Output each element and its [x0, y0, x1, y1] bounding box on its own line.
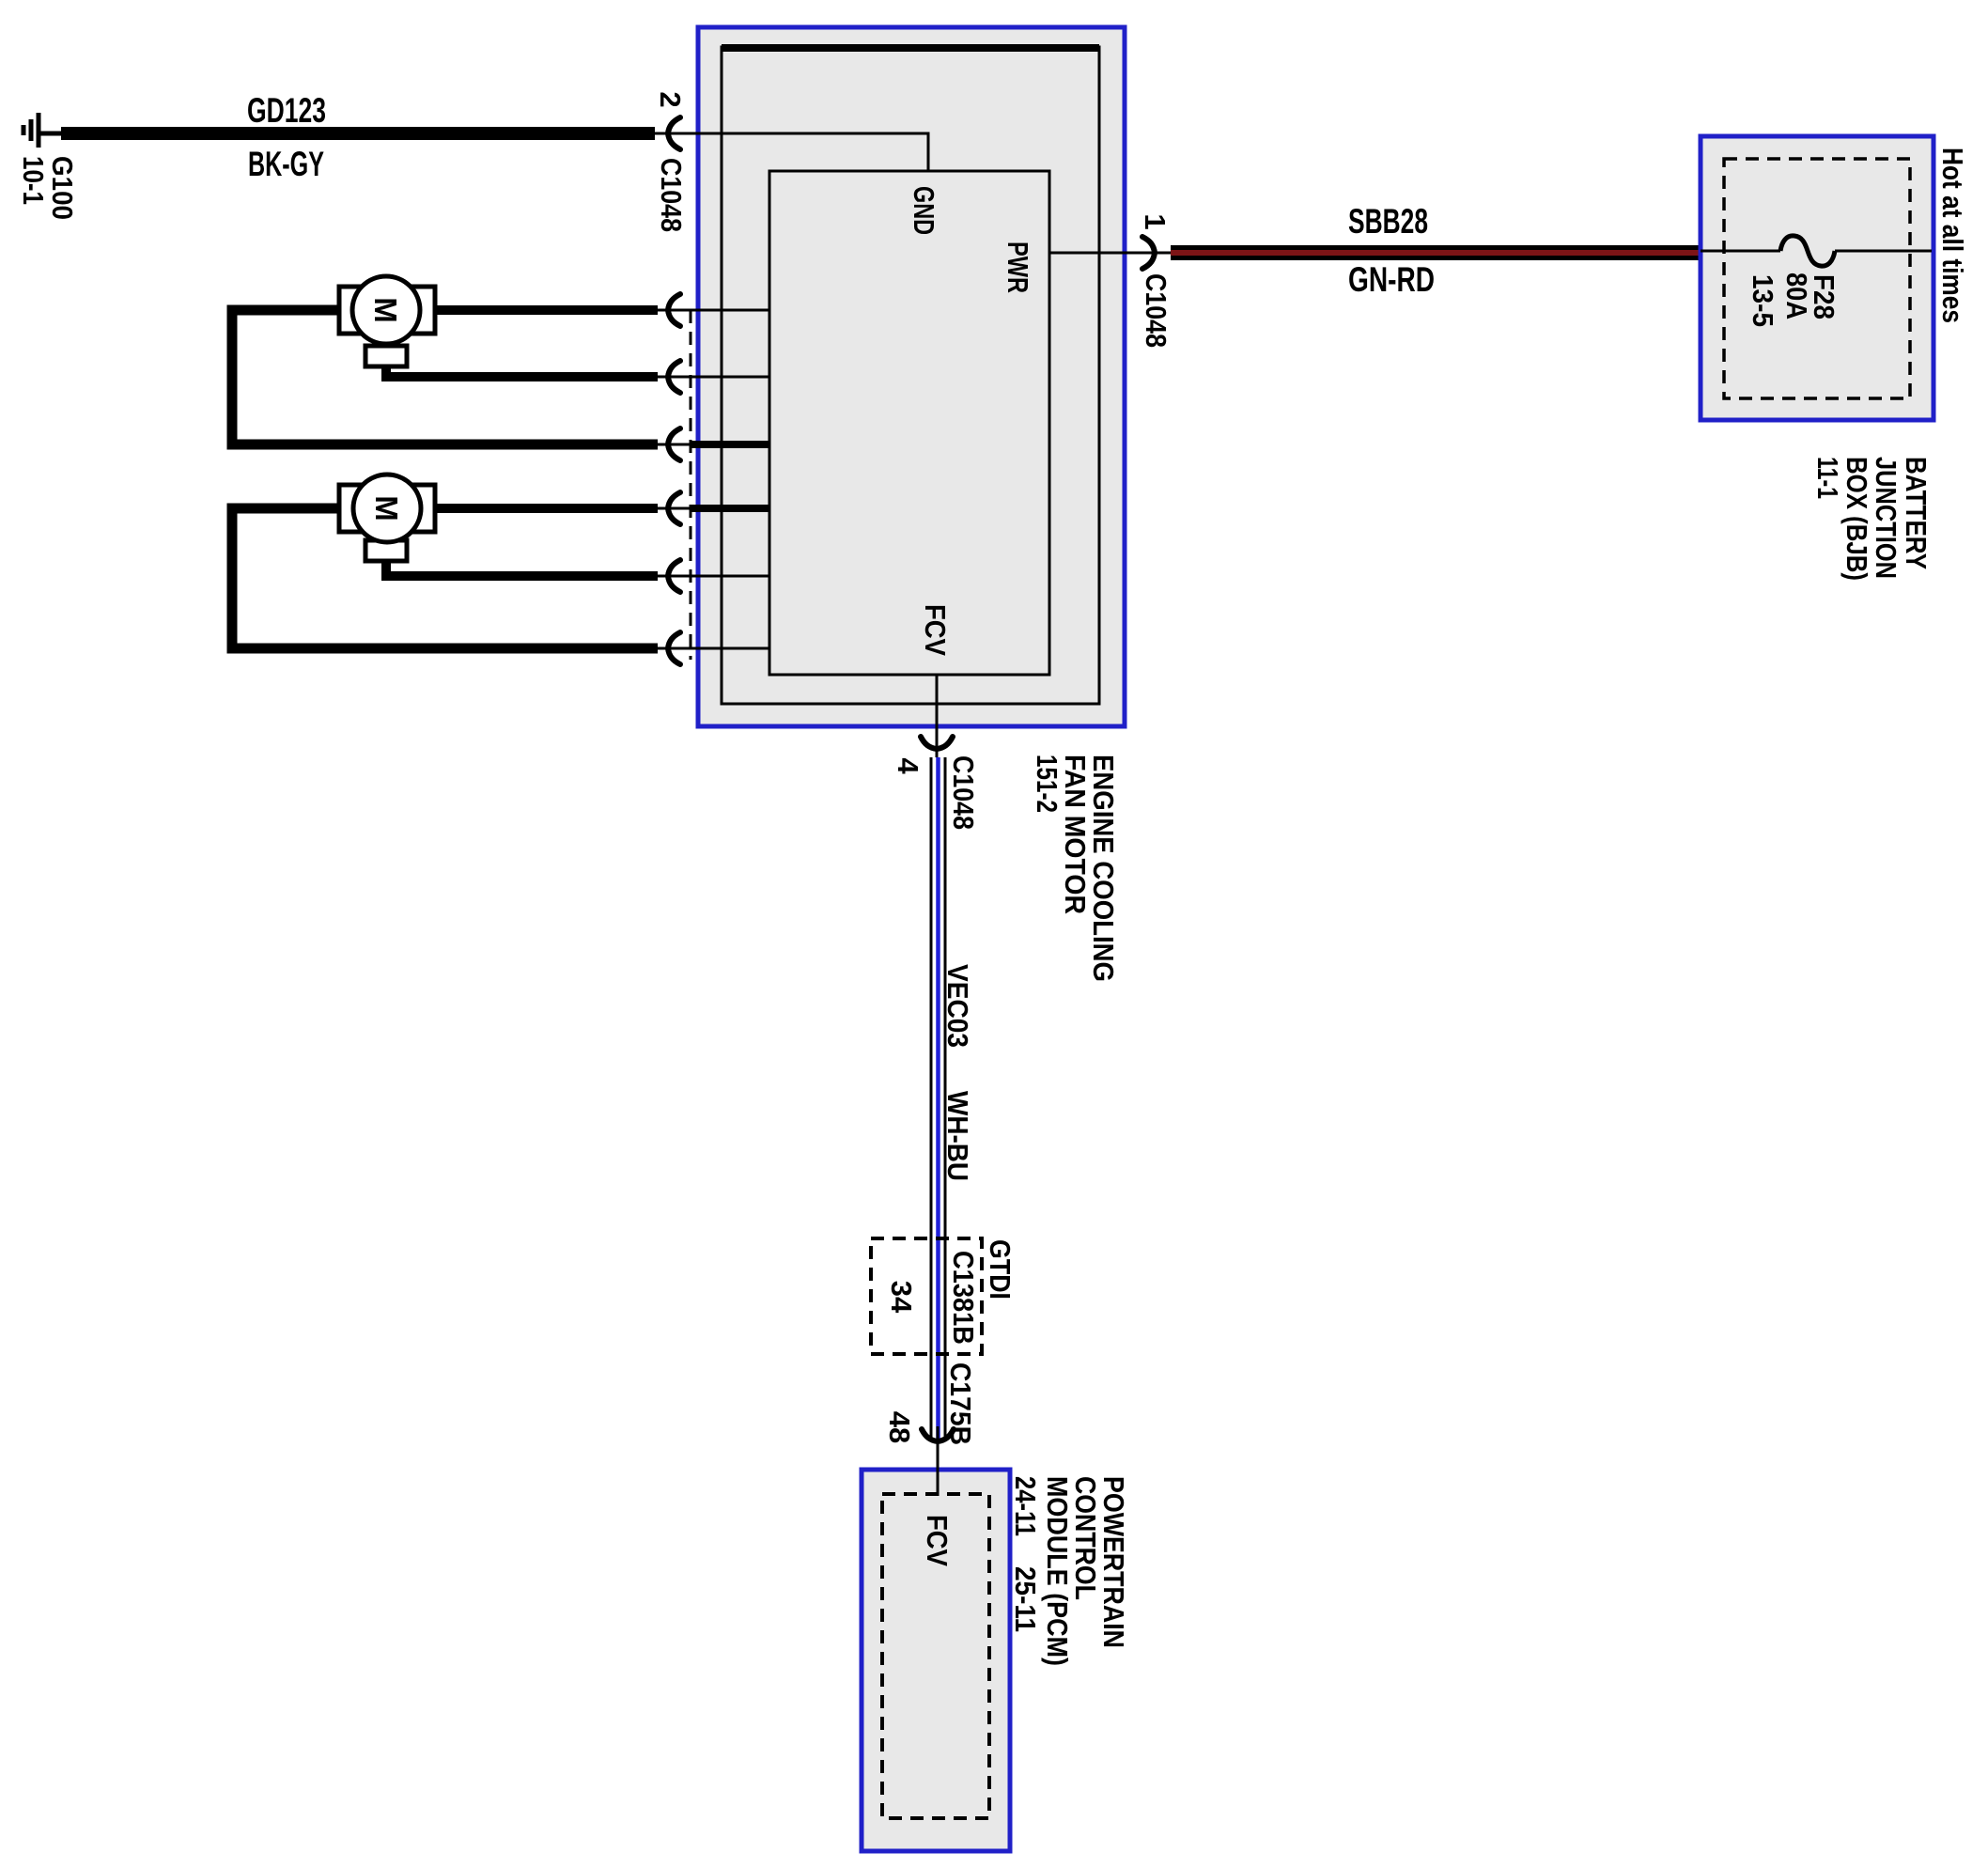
svg-text:MODULE (PCM): MODULE (PCM): [1041, 1476, 1074, 1666]
wire into module pin 2 / GND trace: [668, 133, 928, 171]
connector symbol C175B pin 48: [922, 1429, 954, 1441]
PCM dashed inner box: [882, 1494, 989, 1818]
wire M2 bottom terminal to module: [386, 559, 658, 576]
connector symbol row 5: [668, 560, 680, 592]
svg-text:11-1: 11-1: [1811, 457, 1844, 499]
svg-text:24-11: 24-11: [1009, 1476, 1042, 1536]
connector symbol row 6: [668, 632, 680, 664]
svg-text:FCV: FCV: [919, 604, 952, 656]
module middle box: [722, 47, 1099, 704]
svg-text:C1048: C1048: [655, 158, 688, 232]
wire PWR pin 1: [1049, 252, 1171, 255]
svg-text:4: 4: [892, 757, 924, 774]
svg-text:BK-GY: BK-GY: [248, 145, 324, 183]
connector symbol row 1: [668, 294, 680, 326]
motor M2 bottom terminal rect: [365, 540, 407, 561]
inline connector dashed box: [871, 1238, 982, 1354]
connector symbol C1048 pin 2: [668, 117, 680, 149]
wire stub into module at pin row 6: [673, 647, 769, 650]
wire M1 bottom terminal to module: [386, 365, 658, 377]
wire SBB28 GN-RD red stripe: [1171, 250, 1701, 256]
svg-text:C1048: C1048: [947, 755, 980, 830]
svg-text:GN-RD: GN-RD: [1348, 260, 1435, 299]
BJB dashed inner box: [1724, 159, 1910, 398]
wire through fuse: [1701, 250, 1780, 253]
wire stub into module at pin row 3: [673, 444, 692, 446]
svg-text:PWR: PWR: [1002, 241, 1034, 293]
svg-text:VEC03: VEC03: [941, 964, 974, 1048]
dashed connector boundary C1048: [690, 310, 692, 660]
svg-text:48: 48: [883, 1411, 916, 1443]
svg-text:C1381B: C1381B: [947, 1251, 980, 1345]
motor M2 terminal rect: [339, 485, 435, 532]
wire stub into module at pin row 4: [673, 507, 692, 510]
connector symbol C1048 pin 1: [1142, 237, 1155, 269]
svg-text:13-5: 13-5: [1747, 274, 1779, 327]
fuse F28 symbol: [1780, 236, 1835, 266]
wire GD123 BK-GY (ground wire): [61, 127, 655, 140]
wire M1 left terminal loop to module: [232, 310, 658, 444]
svg-text:25-11: 25-11: [1009, 1566, 1042, 1632]
svg-text:GND: GND: [908, 186, 940, 235]
svg-text:WH-BU: WH-BU: [941, 1091, 974, 1181]
wire into PCM: [937, 1441, 940, 1496]
wire M2 right terminal to module: [435, 504, 658, 513]
svg-text:2: 2: [654, 91, 687, 107]
module inner box: [769, 171, 1049, 675]
svg-text:GD123: GD123: [247, 91, 326, 130]
svg-text:C1048: C1048: [1140, 273, 1173, 348]
wire stub into module at pin row 5: [673, 575, 769, 578]
svg-text:80A: 80A: [1780, 272, 1813, 319]
motor M1 terminal rect: [339, 287, 435, 334]
connector symbol row 3: [668, 428, 680, 460]
motor M1 bottom terminal rect: [365, 346, 407, 366]
powertrain control module PCM box: [862, 1470, 1010, 1851]
svg-text:10-1: 10-1: [17, 156, 50, 205]
battery junction box BJB: [1701, 136, 1934, 420]
svg-text:BOX (BJB): BOX (BJB): [1840, 457, 1873, 581]
motor M1 circle: [352, 276, 420, 344]
svg-text:G100: G100: [46, 156, 79, 220]
svg-text:GTDI: GTDI: [984, 1239, 1017, 1300]
wire SBB28 GN-RD black outline: [1171, 245, 1701, 260]
connector symbol C1048 pin 4: [921, 737, 953, 749]
wire VEC03 WH-BU outline right: [944, 757, 947, 1439]
module middle box thick top edge: [722, 44, 1099, 52]
svg-text:SBB28: SBB28: [1348, 202, 1428, 241]
svg-text:Hot at all times: Hot at all times: [1936, 148, 1969, 323]
svg-text:BATTERY: BATTERY: [1900, 457, 1933, 569]
wire VEC03 WH-BU outline left: [930, 757, 933, 1439]
svg-text:151-2: 151-2: [1031, 755, 1064, 813]
svg-text:FCV: FCV: [921, 1515, 954, 1566]
wire stub into module at pin row 2: [673, 376, 769, 379]
wire VEC03 WH-BU blue stripe: [936, 757, 940, 1439]
svg-text:1: 1: [1139, 213, 1172, 229]
wire M2 left terminal loop to module: [232, 508, 658, 648]
engine cooling fan motor module outer box: [698, 27, 1125, 726]
ground G100: [23, 113, 62, 148]
wire FCV pin 4: [936, 675, 939, 749]
svg-text:JUNCTION: JUNCTION: [1870, 457, 1903, 579]
svg-text:M: M: [369, 495, 404, 521]
wire stub into module at pin row 1: [673, 309, 769, 312]
connector symbol row 2: [668, 361, 680, 393]
svg-text:34: 34: [885, 1281, 918, 1314]
motor M2 circle: [353, 475, 421, 542]
wire M1 right terminal to module: [435, 305, 658, 315]
svg-text:M: M: [368, 297, 403, 323]
connector symbol row 4: [668, 492, 680, 524]
